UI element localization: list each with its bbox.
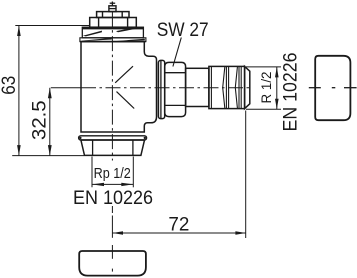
valve seat mark lower (117, 92, 135, 109)
R 1/2 dimension line (276, 67, 278, 109)
63 top extension line (15, 25, 89, 27)
thread end chamfer cap (245, 66, 250, 108)
bonnet hex chamfer mark right (116, 27, 135, 32)
dimension 32.5 line (49, 88, 51, 156)
flange ring thread mark left (81, 38, 112, 41)
union hex nut SW27 (165, 62, 186, 116)
valve body (81, 42, 157, 132)
thread root mark 2 (235, 67, 237, 108)
valve stem tip (111, 2, 113, 6)
SW 27 leader line (173, 38, 181, 67)
valve seat mark upper (115, 66, 133, 83)
svg-text:EN 10226: EN 10226 (73, 187, 153, 209)
dimension 63 arrow up (17, 26, 21, 37)
svg-text:EN 10226: EN 10226 (280, 53, 302, 132)
dimension 72 line (112, 232, 246, 234)
bonnet step row B (90, 18, 137, 28)
dimension 63 arrow down (17, 145, 21, 156)
svg-text:R 1/2: R 1/2 (258, 71, 274, 103)
svg-text:32.5: 32.5 (29, 100, 50, 140)
vertical center line segment below EN text (111, 206, 113, 213)
right pipe cap (315, 56, 350, 120)
bonnet hex chamfer mark left (83, 31, 102, 37)
dimension 63 line (18, 26, 20, 156)
bonnet hex cap (82, 27, 143, 38)
svg-text:72: 72 (168, 214, 189, 236)
bottom cap center line dash (111, 245, 113, 259)
bottom cap center line dot (111, 269, 113, 272)
flange ring thread mark right (114, 39, 145, 42)
bottom hex face lines (92, 140, 94, 155)
63/32.5 bottom extension line (12, 155, 84, 157)
right cap center line dot (332, 87, 336, 89)
right cap center line dash right (344, 87, 357, 89)
union hex nut face lines (165, 72, 186, 74)
union collar ring (158, 60, 164, 118)
thread root mark 1 (223, 67, 225, 108)
horizontal center line (outlet axis) with 32.5 extension (51, 87, 81, 89)
bottom washer ring (79, 136, 147, 140)
bonnet step row A (97, 12, 129, 18)
R 1/2 extension lines (246, 66, 281, 68)
right cap center line dash left (309, 87, 321, 89)
thread crest lines (210, 66, 212, 108)
bonnet flange ring (80, 38, 146, 42)
vertical center line (valve axis) (111, 12, 113, 161)
Rp 1/2 extension lines (91, 157, 93, 188)
dimension 32.5 arrow up (48, 88, 52, 99)
svg-text:Rp 1/2: Rp 1/2 (94, 165, 131, 182)
svg-text:63: 63 (0, 76, 20, 95)
bonnet flange ring bottom edge (80, 41, 146, 43)
dimension 32.5 arrow down (48, 145, 52, 156)
dimension 72 right extension line (245, 111, 247, 239)
stem nut block (109, 6, 116, 12)
bottom pipe cap (79, 251, 146, 276)
bottom hex (81, 140, 145, 155)
outlet thread section (209, 66, 245, 108)
svg-text:SW 27: SW 27 (157, 20, 209, 41)
Rp 1/2 dimension line (92, 183, 133, 185)
72 dim left extension line (111, 216, 113, 238)
outlet cylinder (186, 68, 209, 106)
